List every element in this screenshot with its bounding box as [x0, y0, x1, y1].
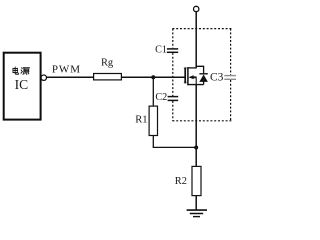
- svg-text:IC: IC: [15, 77, 29, 92]
- svg-text:Rg: Rg: [101, 57, 113, 68]
- svg-text:R2: R2: [175, 176, 187, 187]
- svg-text:C2: C2: [155, 92, 167, 103]
- svg-text:R1: R1: [135, 115, 147, 126]
- svg-text:C1: C1: [155, 45, 167, 56]
- svg-text:C3: C3: [210, 72, 224, 84]
- svg-text:PWM: PWM: [52, 63, 81, 75]
